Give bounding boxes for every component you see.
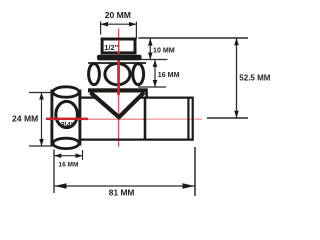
valve body rectangle [80, 97, 194, 141]
top hex nut center ellipse [105, 64, 130, 85]
top hex nut right ellipse [133, 64, 144, 85]
centerline vertical thick red segment [117, 52, 120, 96]
dimension 16 MM right top arrowhead [153, 60, 158, 67]
dimension 16 MM right line [154, 60, 156, 87]
dimension 52.5 MM bottom arrowhead [234, 111, 239, 118]
svg-text:10 MM: 10 MM [153, 47, 175, 55]
dimension 16 MM bottom extension line [82, 150, 84, 160]
centerline horizontal thin pink right segment [146, 119, 202, 120]
dimension 10 MM line [149, 39, 151, 60]
dimension 20 MM extension line left [100, 22, 102, 35]
dimension 24 MM bottom arrowhead [39, 139, 44, 146]
V chamfer of valve body [91, 93, 145, 118]
dimension 10 MM top arrowhead [148, 39, 153, 46]
dimension 81 MM left arrowhead [55, 183, 67, 189]
dimension 52.5 MM line [236, 38, 238, 118]
dimension 16 MM bottom right arrowhead [76, 153, 83, 158]
wire body bottom edge [80, 139, 194, 141]
svg-text:3\4": 3\4" [61, 120, 74, 129]
dimension 24 MM extension line bottom [29, 145, 54, 147]
dimension 16 MM bottom line [54, 155, 82, 157]
dimension 81 MM line [54, 185, 195, 187]
centerline vertical thin red over port [118, 40, 119, 53]
dimension 81 MM extension line left [53, 150, 55, 194]
left hex nut bottom ellipse [53, 138, 79, 148]
dimension 81 MM extension line right [194, 147, 196, 196]
top hex nut right lower stub [145, 92, 148, 98]
top port rectangle 1/2 inch [102, 39, 135, 53]
wire body right inner line [187, 98, 189, 140]
top flange under port [97, 55, 142, 61]
left hex nut right edge [78, 90, 81, 146]
wire body section divider [144, 98, 147, 140]
extension line under top nut [138, 86, 166, 88]
centerline horizontal thin red middle segment [88, 119, 146, 120]
wire body right outer edge [192, 97, 194, 141]
dimension 24 MM extension line top [29, 92, 52, 94]
dimension 16 MM bottom left arrowhead [54, 153, 61, 158]
extension line under flange [141, 59, 168, 61]
dimension 52.5 MM top arrowhead [234, 38, 239, 45]
extension line top of valve [138, 37, 248, 39]
left hex nut left edge [50, 90, 53, 146]
dimension 24 MM top arrowhead [39, 93, 44, 100]
centerline horizontal thick red segment [46, 118, 88, 121]
left hex nut middle ellipse [56, 101, 78, 127]
dimension 20 MM line [101, 23, 137, 25]
svg-text:52.5 MM: 52.5 MM [239, 74, 270, 83]
dimension 81 MM right arrowhead [183, 183, 195, 189]
dimension 20 MM left arrowhead [101, 22, 108, 27]
svg-text:16 MM: 16 MM [59, 162, 79, 169]
top hex nut outline top line [88, 62, 146, 64]
svg-text:24 MM: 24 MM [12, 114, 38, 124]
left hex nut top ellipse [53, 87, 79, 97]
dimension 16 MM right bottom arrowhead [153, 80, 158, 87]
dimension 20 MM right arrowhead [129, 22, 136, 27]
wire body top edge right segment [140, 96, 193, 98]
svg-text:20 MM: 20 MM [105, 10, 131, 20]
wire body top edge left segment [80, 96, 97, 98]
svg-text:1/2": 1/2" [104, 43, 119, 52]
svg-text:81 MM: 81 MM [109, 188, 135, 198]
svg-text:16 MM: 16 MM [158, 71, 180, 79]
centerline vertical thin (red) [118, 29, 119, 148]
dimension 52.5 MM bottom line [207, 117, 248, 119]
dimension 10 MM bottom arrowhead [148, 53, 153, 60]
top hex nut bottom bar [88, 88, 148, 92]
dimension 24 MM line [41, 93, 43, 147]
dimension 20 MM extension line right [135, 22, 137, 39]
top hex nut left ellipse [89, 64, 100, 85]
